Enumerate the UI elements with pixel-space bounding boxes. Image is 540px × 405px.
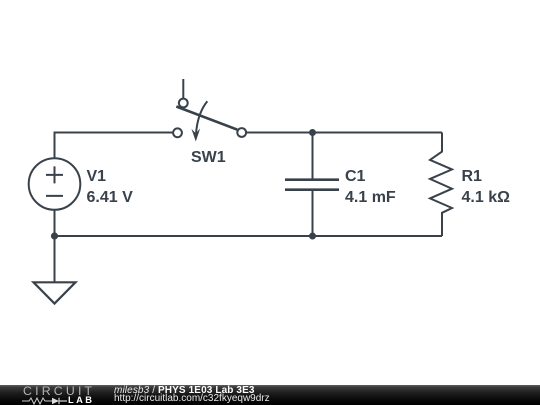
svg-text:R1: R1	[462, 168, 483, 185]
svg-text:4.1 mF: 4.1 mF	[345, 189, 396, 206]
svg-text:6.41 V: 6.41 V	[87, 189, 134, 206]
svg-text:SW1: SW1	[191, 149, 226, 166]
svg-text:C1: C1	[345, 168, 366, 185]
svg-text:V1: V1	[87, 168, 107, 185]
svg-text:4.1 kΩ: 4.1 kΩ	[462, 189, 511, 206]
